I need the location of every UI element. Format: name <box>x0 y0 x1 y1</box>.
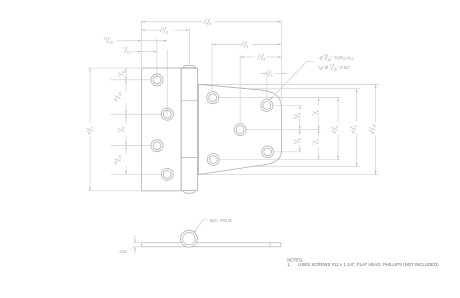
extension line strap hole column C up <box>211 42 213 91</box>
svg-text:.50in. PIN Ø: .50in. PIN Ø <box>209 218 233 223</box>
strap hole S2 <box>261 100 273 112</box>
svg-text:13: 13 <box>114 161 118 165</box>
dim S3 to S4 7/8 <box>318 130 320 138</box>
dim S2 to S3 5/8 <box>299 106 301 110</box>
extension line strap hole S5 right <box>274 151 302 153</box>
svg-text:8: 8 <box>121 71 125 73</box>
svg-text:8: 8 <box>297 138 301 140</box>
edge view joint tick <box>269 243 271 247</box>
svg-text:1: 1 <box>242 41 244 45</box>
svg-text:8: 8 <box>316 139 320 141</box>
barrel knuckle joint line upper <box>181 100 197 102</box>
svg-text:3: 3 <box>331 130 335 132</box>
extension line strap hole S1 right <box>219 97 340 99</box>
barrel pin head top dome <box>183 65 195 68</box>
dim hole3 to hole4 13/16 <box>125 146 127 155</box>
svg-text:1: 1 <box>259 53 261 57</box>
svg-text:8: 8 <box>166 31 168 35</box>
svg-text:7: 7 <box>117 131 121 133</box>
extension line plate top edge left <box>88 67 140 69</box>
strap hole S1 <box>207 92 219 104</box>
svg-text:2: 2 <box>90 127 94 129</box>
plate hole 4 <box>161 168 173 180</box>
edge view strap/plate strip <box>141 243 281 247</box>
dim S3 to S5 5/8 <box>299 130 301 135</box>
barrel pin bottom dome <box>183 191 195 194</box>
extension line strap top edge right <box>199 83 379 85</box>
dim center hole to edge 1 1/8 <box>240 56 255 58</box>
svg-text:1: 1 <box>267 70 269 74</box>
dim right hole to edge 1/2 <box>259 73 267 75</box>
plate hole 3 <box>151 140 163 152</box>
svg-text:16: 16 <box>373 124 377 128</box>
hinge left leaf plate <box>142 68 182 191</box>
strap hole S4 <box>207 154 219 166</box>
hinge barrel knuckle cylinder <box>181 68 197 190</box>
svg-text:7: 7 <box>330 63 332 67</box>
strap hole S5 <box>262 146 274 158</box>
extension line strap hole column D up <box>239 55 241 123</box>
extension line plate hole 4 left <box>111 173 162 175</box>
extension line strap bottom tangent right <box>251 165 360 167</box>
svg-text:8: 8 <box>316 110 320 112</box>
svg-text:9: 9 <box>369 130 373 132</box>
extension line strap hole S3 right <box>246 129 320 131</box>
extension line plate bottom edge left <box>88 190 140 192</box>
plate hole 2 <box>161 108 173 120</box>
callout line 2: csk dia 7/16 x 82deg <box>318 66 323 69</box>
svg-text:8: 8 <box>297 113 301 115</box>
dim plate hole column B offset 11/16 <box>117 40 167 42</box>
svg-text:7: 7 <box>123 47 125 51</box>
extension line strap hole S4 right <box>220 159 341 161</box>
extension line plate hole 2 left <box>111 113 162 115</box>
thickness extension lines <box>133 242 139 244</box>
svg-text:5: 5 <box>293 117 297 119</box>
svg-text:5: 5 <box>293 142 297 144</box>
dim S1 to S4 1 3/4 <box>337 98 339 123</box>
dim S1 to S3 7/8 <box>318 98 320 106</box>
strap hole S3 center <box>234 124 246 136</box>
svg-text:7: 7 <box>205 18 207 22</box>
svg-text:1: 1 <box>86 131 90 133</box>
svg-text:3: 3 <box>117 75 121 77</box>
extension line strap right edge up <box>280 20 282 100</box>
svg-text:16: 16 <box>109 41 113 45</box>
dim plate edge to pin center 1 3/8 <box>142 29 162 31</box>
svg-text:4: 4 <box>335 126 339 128</box>
edge view barrel circle <box>181 230 198 247</box>
svg-text:3: 3 <box>324 54 326 58</box>
svg-text:USES SCREWS #12 x 1 1/4”, FLAT: USES SCREWS #12 x 1 1/4”, FLAT HEAD, PHI… <box>298 262 439 267</box>
hinge strap leaf outline <box>199 84 282 174</box>
svg-text:″ THRU ALL: ″ THRU ALL <box>331 55 354 60</box>
plate hole 1 <box>151 74 163 86</box>
dim overall width 3 7/8 <box>142 21 203 23</box>
svg-text:8: 8 <box>209 22 211 26</box>
svg-text:1.: 1. <box>287 262 291 267</box>
extension line hole column B up <box>166 50 168 115</box>
svg-text:16: 16 <box>118 155 122 159</box>
extension line hole column A up <box>156 39 158 80</box>
dim plate top to hole1 3/8 <box>125 68 127 80</box>
dim strap tangent height 2 1/4 <box>356 89 358 122</box>
extension line plate hole 3 left <box>111 145 151 147</box>
extension line strap hole column E up <box>266 72 268 100</box>
extension line plate hole 1 left <box>111 79 151 81</box>
svg-text:7: 7 <box>312 143 316 145</box>
svg-text:″ X 82°: ″ X 82° <box>337 65 350 70</box>
pin diameter leader <box>194 220 203 233</box>
svg-text:8: 8 <box>121 127 125 129</box>
svg-text:15: 15 <box>114 98 118 102</box>
svg-text:2: 2 <box>271 74 273 78</box>
dim strap hole to edge 2 1/8 <box>212 43 240 45</box>
barrel knuckle joint line lower <box>181 157 197 159</box>
dim plate height 3 1/2 <box>89 68 91 124</box>
svg-text:.13in: .13in <box>118 249 128 254</box>
dim hole1 to hole2 15/16 <box>125 80 127 91</box>
extension line barrel centerline up <box>188 28 190 63</box>
extension line plate left edge up <box>141 20 143 67</box>
svg-text:8: 8 <box>263 57 265 61</box>
notes block <box>287 257 439 267</box>
svg-text:4: 4 <box>354 125 358 127</box>
dim plate hole column A offset 7/16 <box>131 51 157 53</box>
extension line strap bottom edge right <box>199 174 379 176</box>
dim hole2 to hole3 7/8 <box>125 114 127 124</box>
svg-text:8: 8 <box>246 45 248 49</box>
svg-text:16: 16 <box>127 51 131 55</box>
thickness dim .13in <box>134 235 136 243</box>
svg-text:13: 13 <box>103 37 107 41</box>
countersink hole leader <box>270 62 307 100</box>
svg-text:1: 1 <box>350 129 354 131</box>
svg-text:16: 16 <box>118 92 122 96</box>
extension line strap top tangent right <box>251 88 360 90</box>
dim strap height 2 9/16 <box>375 84 377 122</box>
extension line strap hole S2 right <box>273 105 302 107</box>
svg-text:3: 3 <box>162 27 164 31</box>
svg-text:7: 7 <box>312 114 316 116</box>
